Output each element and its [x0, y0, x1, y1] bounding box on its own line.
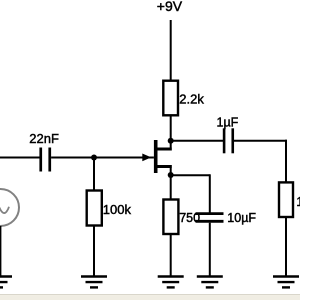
- wire output vertical down: [285, 140, 287, 183]
- transistor Q1 source stub: [156, 165, 172, 168]
- ground under R3: [273, 277, 299, 288]
- svg-text:1µF: 1µF: [217, 116, 239, 130]
- wire Q1 drain vertical: [170, 141, 172, 151]
- wire R2 to ground: [93, 226, 95, 277]
- capacitor C2 1uF left plate: [223, 128, 226, 153]
- resistor R4 750 body: [163, 200, 178, 235]
- capacitor C1 22nF right plate: [48, 148, 51, 172]
- svg-text:10µF: 10µF: [227, 211, 256, 225]
- wire source node down to R4: [170, 175, 172, 200]
- ground under R2: [81, 277, 107, 288]
- wire R4 to ground: [170, 234, 172, 276]
- transistor Q1 gate arrow: [142, 154, 151, 162]
- resistor R1 2.2k body: [163, 81, 178, 116]
- node source junction dot: [168, 172, 174, 178]
- wire gate from input node: [94, 157, 154, 159]
- node gate junction dot: [91, 155, 97, 161]
- AC source V1 sine symbol: [0, 205, 9, 213]
- AC source V1 circle: [0, 189, 19, 226]
- wire C3 to ground: [209, 223, 211, 276]
- ground under C3: [197, 277, 223, 288]
- capacitor C2 1uF right plate: [231, 128, 234, 153]
- wire gate node down to R2: [93, 158, 95, 192]
- svg-text:+9V: +9V: [157, 0, 183, 14]
- ground under R4: [158, 277, 184, 288]
- capacitor C3 10uF top plate: [196, 212, 224, 215]
- capacitor C1 22nF left plate: [39, 148, 42, 172]
- svg-text:22nF: 22nF: [29, 131, 59, 146]
- wire V1 to ground: [0, 226, 1, 276]
- wire R3 to ground: [285, 217, 287, 276]
- transistor Q1 JFET channel bar: [154, 140, 158, 173]
- ground under V1 (clipped at left edge): [0, 277, 12, 288]
- transistor Q1 drain stub: [156, 148, 172, 151]
- resistor R2 100k body: [87, 191, 102, 226]
- svg-text:1M: 1M: [296, 194, 300, 209]
- wire C1 to gate node: [51, 157, 94, 159]
- wire drain node to C2: [171, 140, 223, 142]
- node drain junction dot: [168, 138, 174, 144]
- wire input left segment: [0, 157, 40, 159]
- wire Q1 source vertical: [170, 165, 172, 175]
- resistor R3 body (right): [279, 182, 293, 217]
- capacitor C3 10uF bottom plate: [196, 220, 224, 223]
- svg-text:2.2k: 2.2k: [179, 91, 204, 106]
- wire supply vertical: [170, 20, 172, 82]
- wire R1 to drain node: [170, 115, 172, 142]
- wire C3 branch vertical: [209, 174, 211, 213]
- svg-text:100k: 100k: [103, 202, 132, 217]
- status bar bottom: [0, 294, 300, 295]
- wire source node to C3 branch: [171, 174, 210, 176]
- wire C2 to output corner: [234, 140, 287, 142]
